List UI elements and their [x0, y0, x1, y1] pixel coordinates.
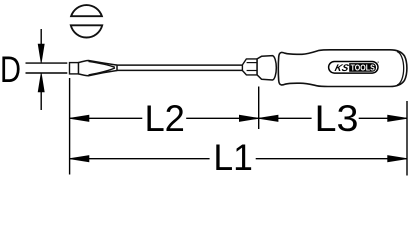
- handle end cap seam: [397, 52, 404, 85]
- logo registered mark: [378, 62, 379, 63]
- L1 left arrowhead: [70, 156, 89, 162]
- L2 dimension line right part: [186, 117, 258, 119]
- bolster hex upper flat line: [247, 62, 258, 64]
- D upper arrow tail: [40, 29, 42, 45]
- tip end view: slotted circle bottom segment: [71, 25, 102, 37]
- D lower arrowhead: [38, 73, 44, 92]
- bolster hex lower flat line: [247, 70, 258, 72]
- D lower extension line: [26, 72, 68, 74]
- blade flat tip: [70, 63, 79, 74]
- logo TOOLS black box: [349, 63, 376, 72]
- middle extension line (ferrule): [258, 87, 260, 130]
- left extension line (tip): [69, 78, 71, 175]
- D upper arrowhead: [38, 44, 44, 63]
- svg-text:D: D: [0, 49, 21, 90]
- svg-text:L2: L2: [144, 98, 185, 139]
- L2 dimension line left part: [70, 117, 142, 119]
- right extension line (handle end): [406, 101, 408, 176]
- L3 right arrowhead: [388, 115, 407, 121]
- L3 left arrowhead: [259, 115, 278, 121]
- handle body: [278, 50, 407, 87]
- D upper extension line: [26, 62, 68, 64]
- L3 dimension line right part: [359, 117, 407, 119]
- KS TOOLS logo pill: [329, 62, 378, 74]
- D lower arrow tail: [40, 92, 42, 111]
- tip end view: slotted circle top segment: [71, 5, 102, 16]
- blade wedge: [78, 61, 117, 76]
- svg-text:TOOLS: TOOLS: [351, 63, 375, 73]
- svg-text:L1: L1: [213, 137, 253, 178]
- L1 right arrowhead: [388, 156, 407, 162]
- svg-text:L3: L3: [315, 98, 359, 139]
- ferrule: [257, 56, 276, 80]
- shaft bottom line: [115, 69, 243, 71]
- L1 dimension line right part: [256, 158, 407, 160]
- L2 right arrowhead: [239, 115, 258, 121]
- blade grind boundary upper curve: [89, 61, 115, 67]
- L3 dimension line left part: [259, 117, 312, 119]
- blade grind boundary lower curve: [89, 68, 115, 75]
- L2 left arrowhead: [70, 115, 89, 121]
- L1 dimension line left part: [70, 158, 210, 160]
- bolster hex: [242, 59, 257, 75]
- shaft top line: [115, 64, 243, 66]
